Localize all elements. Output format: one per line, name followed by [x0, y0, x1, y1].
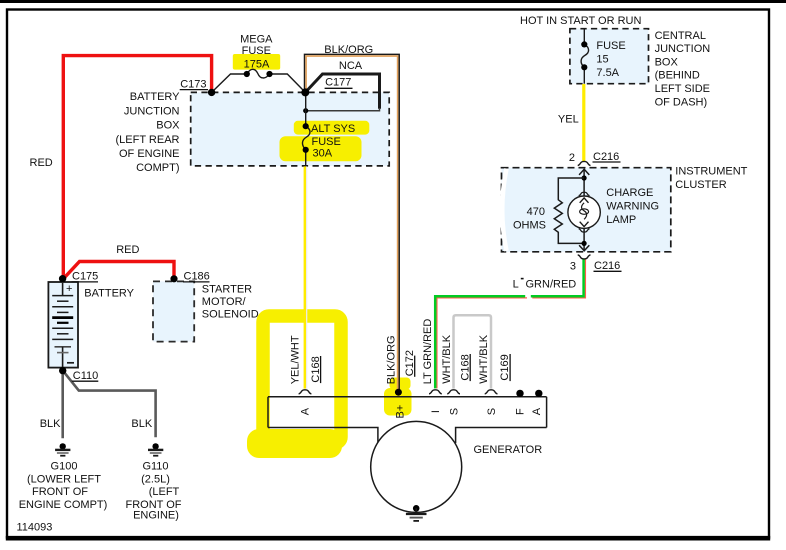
svg-text:C216: C216: [593, 151, 619, 163]
pin B+ dot: [395, 389, 402, 396]
svg-text:LAMP: LAMP: [606, 214, 636, 226]
svg-text:OF DASH): OF DASH): [655, 96, 708, 108]
mega fuse wire C173 to C177: [212, 74, 247, 92]
pin A2 dot: [535, 390, 542, 397]
svg-text:WHT/BLK: WHT/BLK: [478, 334, 490, 384]
svg-text:A: A: [300, 407, 312, 415]
node on vertical below C177: [303, 108, 308, 113]
lamp chevron top: [580, 198, 589, 203]
svg-text:STARTER: STARTER: [202, 284, 252, 296]
wire lt grn/red from C216 pin3, red stripe: [532, 259, 585, 298]
svg-text:S: S: [486, 408, 498, 415]
starter motor/solenoid box: [153, 281, 194, 341]
svg-text:BOX: BOX: [156, 120, 180, 132]
wire blk battery to G100: [61, 370, 64, 438]
svg-text:3: 3: [570, 260, 576, 272]
svg-text:G100: G100: [51, 461, 78, 473]
svg-text:MOTOR/: MOTOR/: [202, 296, 247, 308]
instrument cluster white crescent: [502, 169, 506, 251]
svg-text:RED: RED: [116, 244, 139, 256]
svg-text:OF ENGINE: OF ENGINE: [119, 148, 180, 160]
svg-text:JUNCTION: JUNCTION: [124, 105, 180, 117]
ground G100: [60, 443, 66, 449]
svg-text:BLK: BLK: [40, 418, 61, 430]
svg-text:(LOWER LEFT: (LOWER LEFT: [27, 474, 101, 486]
lamp chevron bottom: [580, 222, 589, 227]
svg-text:ENGINE COMPT): ENGINE COMPT): [19, 499, 108, 511]
generator circle: [371, 421, 462, 512]
svg-text:HOT IN START OR RUN: HOT IN START OR RUN: [520, 15, 641, 27]
svg-text:114093: 114093: [17, 522, 53, 534]
lamp filament: [582, 203, 587, 220]
highlight alt sys fuse upper: [294, 121, 370, 135]
svg-text:FUSE: FUSE: [242, 45, 271, 57]
pin A connector cap: [299, 390, 312, 394]
svg-text:BLK/ORG: BLK/ORG: [386, 335, 398, 384]
svg-text:C175: C175: [72, 271, 98, 283]
pin F dot: [516, 390, 523, 397]
highlight B+ blob: [384, 388, 412, 416]
svg-text:FRONT OF: FRONT OF: [32, 486, 88, 498]
wire blk battery to G110: [64, 372, 156, 438]
svg-text:470: 470: [527, 206, 545, 218]
battery junction box (fill): [191, 92, 390, 165]
generator box left: [267, 397, 269, 428]
svg-text:CLUSTER: CLUSTER: [675, 179, 726, 191]
junction dot C175: [59, 275, 66, 282]
pin I connector cap: [429, 390, 442, 394]
generator box right: [546, 397, 548, 428]
alt sys fuse dots: [303, 123, 309, 129]
alt sys fuse wire: [305, 92, 307, 126]
svg-text:G110: G110: [142, 461, 168, 473]
connector cap pin 2 C216: [578, 161, 591, 165]
svg-text:BATTERY: BATTERY: [130, 91, 180, 103]
mega fuse dots: [244, 71, 250, 77]
highlight ring bottom blob: [247, 429, 342, 458]
cluster internal wire bottom: [583, 229, 585, 251]
chevron out of cluster: [579, 245, 589, 251]
svg-text:LEFT SIDE: LEFT SIDE: [655, 83, 710, 95]
svg-text:FUSE: FUSE: [312, 136, 341, 148]
svg-text:7.5A: 7.5A: [596, 67, 619, 79]
generator box bottom left + notch: [268, 428, 378, 443]
svg-text:C216: C216: [594, 260, 620, 272]
border bottom thick bar: [6, 536, 770, 541]
svg-text:RED: RED: [30, 157, 53, 169]
wire blk/org (black half): [305, 54, 400, 391]
instrument cluster box: [502, 168, 671, 252]
svg-text:GENERATOR: GENERATOR: [474, 444, 543, 456]
junction dot C110: [59, 367, 66, 374]
svg-text:BATTERY: BATTERY: [84, 288, 134, 300]
generator box top: [268, 396, 547, 398]
svg-text:BLK: BLK: [131, 418, 152, 430]
svg-text:+: +: [66, 283, 72, 295]
node bottom: [582, 241, 587, 246]
svg-text:WARNING: WARNING: [606, 201, 659, 213]
charge warning lamp circle: [568, 196, 600, 228]
svg-text:(BEHIND: (BEHIND: [655, 70, 700, 82]
svg-text:S: S: [448, 408, 460, 415]
svg-text:C168: C168: [459, 354, 471, 380]
svg-text:(LEFT: (LEFT: [149, 486, 180, 498]
svg-text:C173: C173: [180, 78, 206, 90]
highlight alt sys fuse lower: [280, 136, 362, 161]
battery box: [48, 282, 78, 368]
CJB fuse: [583, 30, 585, 45]
svg-text:I: I: [430, 410, 442, 413]
svg-text:ALT SYS: ALT SYS: [311, 123, 355, 135]
wire red branch C175 to C186: [63, 262, 174, 279]
svg-text:(2.5L): (2.5L): [141, 474, 170, 486]
pin S2 connector cap: [485, 390, 498, 394]
svg-text:A: A: [531, 407, 543, 415]
svg-text:CENTRAL: CENTRAL: [655, 30, 706, 42]
svg-text:WHT/BLK: WHT/BLK: [441, 334, 453, 384]
svg-text:FUSE: FUSE: [596, 40, 625, 52]
svg-text:LT GRN/RED: LT GRN/RED: [422, 319, 434, 385]
svg-text:2: 2: [569, 152, 575, 164]
svg-text:CHARGE: CHARGE: [606, 187, 653, 199]
svg-text:MEGA: MEGA: [240, 33, 273, 45]
wire red main: top horizontal + left vertical: [63, 56, 211, 277]
svg-text:F: F: [514, 408, 526, 415]
svg-text:(LEFT REAR: (LEFT REAR: [116, 134, 180, 146]
chevron into cluster: [579, 169, 589, 175]
svg-text:NCA: NCA: [339, 60, 363, 72]
svg-text:BLK/ORG: BLK/ORG: [324, 44, 373, 56]
generator ground: [413, 505, 420, 512]
svg-text:30A: 30A: [313, 148, 333, 160]
svg-text:JUNCTION: JUNCTION: [655, 43, 711, 55]
svg-text:INSTRUMENT: INSTRUMENT: [675, 166, 747, 178]
svg-text:BOX: BOX: [655, 56, 679, 68]
lamp cap top: [579, 192, 590, 195]
lamp cap bottom: [579, 229, 590, 232]
central junction box (fill): [570, 29, 649, 84]
svg-text:15: 15: [596, 54, 608, 66]
cluster internal wire top: [583, 169, 585, 196]
svg-text:L: L: [513, 279, 519, 291]
svg-text:ENGINE): ENGINE): [133, 509, 179, 521]
highlight B+ blob upper: [390, 378, 411, 390]
NCA wire thick: [305, 74, 379, 109]
svg-text:COMPT): COMPT): [136, 162, 179, 174]
battery minus sign: [67, 362, 74, 364]
svg-text:YEL: YEL: [558, 114, 579, 126]
svg-text:B+: B+: [394, 405, 406, 419]
wire blk/org (orange half): [306, 56, 398, 391]
generator box bottom right + notch: [456, 428, 547, 444]
svg-text:C169: C169: [499, 354, 511, 380]
svg-text:175A: 175A: [244, 59, 270, 71]
highlight 175A: [233, 54, 280, 70]
node top: [582, 175, 587, 180]
svg-text:SOLENOID: SOLENOID: [202, 309, 259, 321]
ground G110: [152, 443, 158, 449]
wire lt grn/red green part: [531, 259, 584, 296]
resistor branch: [554, 178, 584, 243]
svg-text:C177: C177: [325, 76, 351, 88]
wire yel from CJB fuse to C216 pin 2: [582, 84, 585, 161]
connector cup pin 3 C216: [578, 255, 591, 259]
svg-text:C110: C110: [73, 370, 98, 382]
junction dot C177: [301, 88, 309, 96]
svg-text:C186: C186: [184, 271, 210, 283]
svg-text:GRN/RED: GRN/RED: [526, 279, 577, 291]
highlight ring around generator pin A: [263, 316, 341, 443]
junction dot C186: [170, 275, 177, 282]
wire wht/blk loop between S pins: [454, 315, 492, 388]
svg-text:YEL/WHT: YEL/WHT: [290, 335, 302, 384]
wire yel/wht vertical to pin A: [304, 166, 307, 388]
svg-text:OHMS: OHMS: [513, 219, 546, 231]
top black strip: [0, 0, 786, 3]
pin S1 connector cap: [447, 390, 460, 394]
battery internals: [62, 283, 64, 296]
junction dot C173: [208, 89, 215, 96]
NCA wire thin return: [306, 109, 380, 111]
